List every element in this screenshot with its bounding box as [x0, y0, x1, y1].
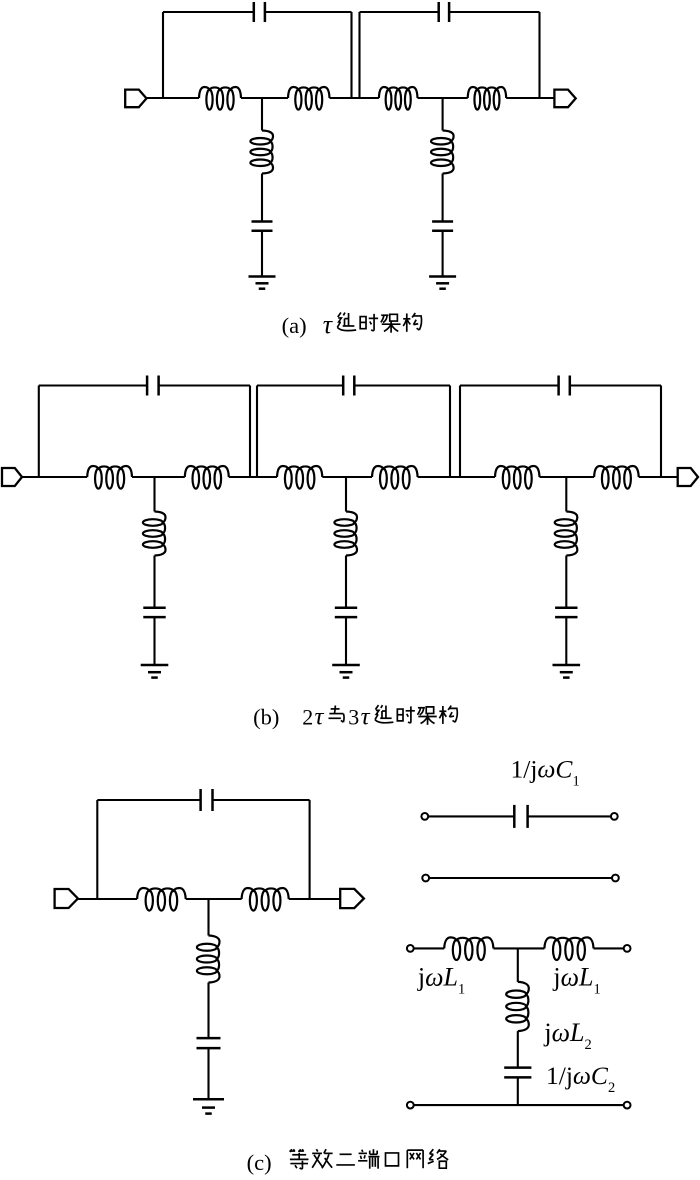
- wire stage-C top left: [97, 799, 200, 801]
- wire node A1: [241, 97, 288, 99]
- wire stage-B2 top right: [354, 384, 450, 386]
- wire node A2: [418, 97, 468, 99]
- node terminal 2a: [422, 875, 429, 882]
- wire: [22, 476, 87, 478]
- wire: [565, 556, 567, 608]
- wire stage-B1 top left: [39, 384, 147, 386]
- node terminal 4b: [624, 1102, 631, 1109]
- capacitor C-feedback stage C: [199, 789, 202, 811]
- wire: [506, 97, 554, 99]
- wire: [418, 476, 495, 478]
- wire stage-B3 top right: [570, 384, 661, 386]
- capacitor C-shunt (a): [252, 220, 273, 223]
- svg-text:jωL1: jωL1: [417, 963, 465, 998]
- svg-text:1/jωC1: 1/jωC1: [511, 755, 580, 790]
- wire: [639, 476, 678, 478]
- wire: [330, 97, 379, 99]
- wire node T: [493, 947, 544, 949]
- caption (b) glyph yu: [329, 706, 345, 723]
- wire stage-A1 left vertical: [162, 12, 164, 98]
- inductor L-series Cb: [242, 888, 289, 911]
- wire node B1: [132, 476, 185, 478]
- capacitor C-shunt (b): [143, 607, 165, 610]
- wire: [147, 97, 200, 99]
- wire: [78, 898, 137, 900]
- node terminal 3b: [624, 945, 631, 952]
- inductor jwL1 left: [444, 937, 493, 960]
- node terminal 3a: [407, 945, 414, 952]
- wire: [442, 231, 444, 277]
- wire node B3: [540, 476, 595, 478]
- capacitor C-feedback stage A2: [437, 2, 440, 22]
- capacitor C1 series: [513, 805, 516, 828]
- wire: [442, 174, 444, 222]
- inductor L-series Ca: [137, 888, 186, 911]
- node terminal 2b: [612, 875, 619, 882]
- inductor L-series B2a: [277, 466, 322, 489]
- wire stage-B2 right vertical: [449, 386, 451, 478]
- port P2 output (a): [554, 90, 575, 108]
- wire: [517, 1077, 519, 1105]
- svg-text:(a): (a): [282, 313, 307, 338]
- inductor L-shunt (b): [334, 512, 357, 556]
- capacitor C-feedback stage B3: [557, 376, 560, 396]
- svg-text:3: 3: [348, 705, 359, 730]
- inductor L-shunt (b): [143, 512, 166, 556]
- svg-text:τ: τ: [323, 310, 334, 339]
- wire stage-B2 top left: [257, 384, 343, 386]
- wire stage-A1 top left: [163, 11, 254, 13]
- wire stage-A2 top right: [449, 11, 539, 13]
- inductor L-series B1b: [185, 466, 229, 489]
- caption (c) glyph wang: [407, 1150, 423, 1168]
- wire shunt: [261, 98, 263, 131]
- wire bottom row: [414, 1104, 624, 1106]
- svg-text:jωL1: jωL1: [552, 963, 600, 998]
- wire: [289, 898, 341, 900]
- caption (b) glyph jia: [417, 707, 436, 725]
- wire stage-C right vertical: [309, 800, 311, 899]
- caption (b) glyph shi: [397, 706, 415, 722]
- wire stage-B1 top right: [159, 384, 250, 386]
- wire stage-B2 left vertical: [256, 386, 258, 478]
- node terminal 1b: [611, 813, 618, 820]
- wire stage-C left vertical: [96, 800, 98, 899]
- caption (c) glyph xiao: [312, 1149, 332, 1168]
- svg-text:1/jωC2: 1/jωC2: [546, 1061, 615, 1096]
- caption (c) glyph deng: [289, 1149, 308, 1169]
- caption (c) glyph luo: [428, 1149, 448, 1168]
- wire: [528, 815, 611, 817]
- wire: [594, 947, 624, 949]
- port P1 input (a): [125, 90, 146, 108]
- wire: [153, 617, 155, 665]
- port P5 input (c): [55, 889, 78, 908]
- wire stage-B3 left vertical: [459, 386, 461, 478]
- inductor jwL1 right: [544, 937, 593, 960]
- inductor L-series A2a: [379, 87, 418, 110]
- svg-text:2: 2: [302, 705, 313, 730]
- ground: [141, 665, 169, 678]
- wire shunt: [565, 477, 567, 512]
- wire row2: [429, 877, 612, 879]
- caption (a) glyph yan: [337, 313, 356, 331]
- wire: [345, 617, 347, 665]
- wire stage-A1 top right: [265, 11, 352, 13]
- caption (c) glyph er: [336, 1154, 355, 1165]
- wire stage-A2 left vertical: [358, 12, 360, 98]
- svg-text:(c): (c): [247, 1150, 272, 1175]
- ground: [249, 277, 276, 289]
- wire shunt: [442, 98, 444, 131]
- ground: [332, 665, 360, 678]
- port P3 input (b): [2, 468, 22, 486]
- wire shunt: [207, 899, 209, 936]
- wire node C: [186, 898, 242, 900]
- capacitor C-shunt (a): [432, 220, 453, 223]
- wire: [414, 947, 445, 949]
- capacitor C-shunt (b): [335, 607, 357, 610]
- svg-text:τ: τ: [361, 704, 371, 731]
- wire: [428, 815, 514, 817]
- capacitor C-feedback stage B2: [342, 376, 345, 396]
- wire stage-C top right: [213, 799, 310, 801]
- inductor L-shunt (a): [431, 131, 454, 174]
- wire stage-A1 right vertical: [350, 12, 352, 98]
- caption (a) glyph jia: [381, 314, 401, 332]
- inductor L-shunt (b): [555, 512, 578, 556]
- inductor L-shunt (c): [197, 936, 220, 983]
- capacitor C-feedback stage B1: [146, 376, 149, 396]
- wire: [565, 617, 567, 665]
- capacitor C-shunt (b): [555, 607, 577, 610]
- svg-text:(b): (b): [253, 705, 279, 730]
- caption (b) glyph gou: [439, 706, 457, 724]
- wire: [229, 476, 277, 478]
- ground: [553, 665, 581, 678]
- wire: [517, 1031, 519, 1068]
- svg-text:τ: τ: [315, 704, 325, 731]
- wire: [261, 231, 263, 277]
- port P6 output (c): [340, 889, 364, 908]
- caption (c) glyph duan: [358, 1149, 379, 1168]
- wire stage-B3 top left: [460, 384, 559, 386]
- port P4 output (b): [678, 468, 698, 486]
- inductor L-series A1b: [288, 87, 330, 110]
- inductor L-series A1a: [199, 87, 241, 110]
- wire: [345, 556, 347, 608]
- wire: [207, 1048, 209, 1099]
- capacitor C-shunt (c): [197, 1037, 221, 1040]
- wire stage-A2 top left: [360, 11, 439, 13]
- node terminal 1a: [421, 813, 428, 820]
- ground: [429, 277, 456, 289]
- ground: [193, 1099, 224, 1113]
- inductor L-series B2b: [372, 466, 418, 489]
- inductor L-series B3a: [495, 466, 540, 489]
- capacitor C2 shunt: [504, 1066, 531, 1069]
- wire shunt: [153, 477, 155, 512]
- svg-text:jωL2: jωL2: [543, 1018, 591, 1053]
- capacitor C-feedback stage A1: [253, 2, 256, 22]
- caption (a) glyph gou: [403, 313, 421, 332]
- wire shunt: [345, 477, 347, 512]
- wire: [207, 983, 209, 1039]
- inductor jwL2: [506, 982, 529, 1031]
- wire: [153, 556, 155, 608]
- inductor L-shunt (a): [250, 131, 273, 174]
- inductor L-series B1a: [87, 466, 132, 489]
- wire: [261, 174, 263, 222]
- wire node B2: [322, 476, 372, 478]
- inductor L-series A2b: [468, 87, 507, 110]
- caption (c) glyph kou: [386, 1153, 399, 1166]
- wire stage-A2 right vertical: [538, 12, 540, 98]
- node terminal 4a: [407, 1102, 414, 1109]
- wire stage-B1 right vertical: [249, 386, 251, 478]
- caption (b) glyph yan: [375, 705, 393, 723]
- wire shunt T: [517, 948, 519, 982]
- inductor L-series B3b: [594, 466, 639, 489]
- wire stage-B3 right vertical: [660, 386, 662, 478]
- caption (a) glyph shi: [360, 314, 378, 331]
- wire stage-B1 left vertical: [38, 386, 40, 478]
